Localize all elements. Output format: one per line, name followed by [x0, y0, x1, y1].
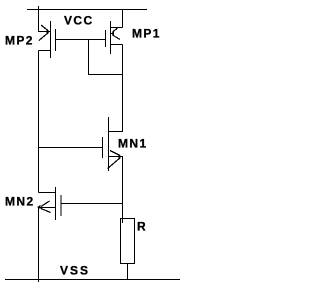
resistor R bottom lead [127, 264, 129, 280]
transistor MN2 channel bar [55, 187, 57, 220]
svg-text:R: R [137, 220, 147, 234]
transistor MP2 arrow tip [47, 30, 50, 34]
wire MN1 source down to R [122, 157, 124, 224]
transistor MN1 arrow tip [119, 155, 122, 159]
transistor MP1 channel bar [110, 21, 112, 54]
transistor MN2 arrow barbs [41, 201, 51, 213]
VCC rail [27, 9, 147, 11]
transistor MN1 gate bar [102, 137, 104, 158]
transistor MP2 drain lead [39, 50, 51, 52]
transistor MP1 arrow tip [111, 32, 114, 36]
transistor MP1 gate bar [105, 30, 107, 47]
transistor MP2 gate bar [55, 29, 57, 51]
transistor MN2 arrow tip [37, 205, 40, 209]
VCC terminal stub [38, 6, 40, 10]
transistor MN1 source lead [109, 156, 124, 158]
wire MN2 source down through VSS rail [38, 208, 40, 283]
transistor MN1 channel bar [108, 117, 110, 171]
transistor MN2 source lead [39, 207, 56, 209]
resistor R body [121, 219, 135, 264]
svg-text:VCC: VCC [64, 14, 94, 28]
svg-text:VSS: VSS [60, 264, 90, 278]
transistor MN1 gate wire from left node [39, 147, 103, 149]
transistor MP1 arrow barbs [113, 28, 121, 40]
transistor MP2 arrow barbs [39, 25, 49, 41]
wire MP2 gate to MP1 gate [56, 39, 106, 41]
svg-text:MP1: MP1 [132, 27, 161, 41]
svg-text:MN2: MN2 [5, 195, 35, 209]
transistor MP2 channel bar [50, 21, 52, 58]
transistor MN2 drain lead from left wire [39, 192, 56, 194]
transistor MP1 source lead [111, 44, 123, 46]
wire MP2 source to VCC rail [39, 10, 51, 32]
wire MP1 gate tie drop [89, 40, 123, 75]
transistor MN1 drain lead [109, 131, 124, 133]
wire MN2 gate to MN1 source node [61, 203, 123, 205]
VSS rail [5, 279, 180, 281]
transistor MP1 drain lead to rail [111, 10, 123, 28]
wire MP2 drain down left side [38, 51, 40, 193]
wire MP1 source down to MN1 drain [122, 45, 124, 132]
transistor MN2 gate bar [60, 195, 62, 216]
transistor MN1 arrow barbs [108, 151, 121, 169]
svg-text:MN1: MN1 [118, 137, 148, 151]
svg-text:MP2: MP2 [5, 34, 34, 48]
